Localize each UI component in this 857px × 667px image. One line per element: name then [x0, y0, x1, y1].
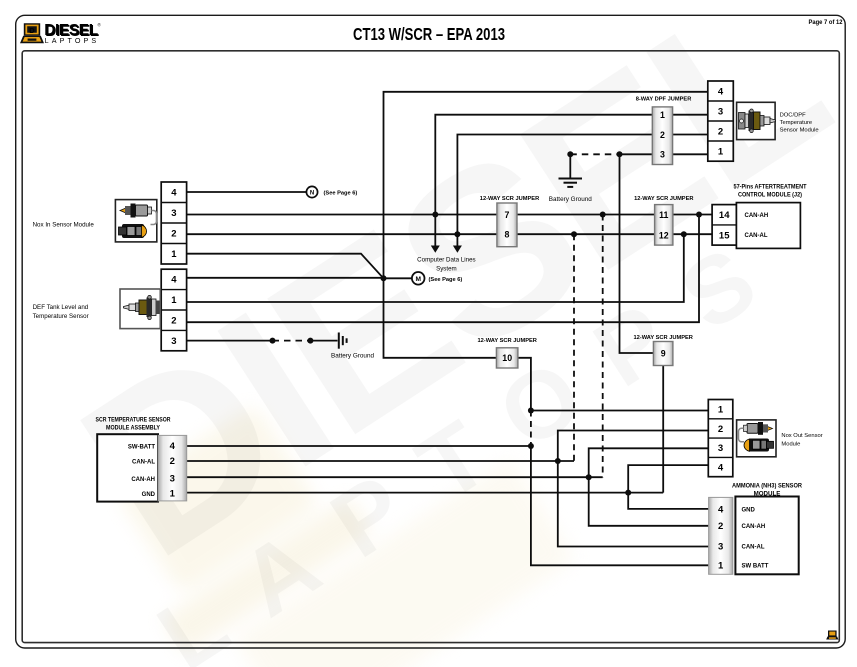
svg-text:1: 1: [170, 489, 176, 500]
svg-text:Battery Ground: Battery Ground: [549, 196, 593, 203]
junction at x435 CAN-high: [432, 212, 438, 218]
svg-text:D: D: [29, 26, 35, 35]
label 12-way SCR jumper (9): [633, 335, 692, 341]
wire GND bus: SCR GND to corner x663: [187, 492, 664, 494]
jumper 12-way SCR (7,8): [497, 203, 517, 247]
svg-text:3: 3: [170, 474, 175, 485]
label computer data lines: [417, 257, 475, 273]
svg-text:14: 14: [719, 210, 730, 221]
svg-text:3: 3: [718, 443, 723, 454]
svg-text:System: System: [436, 266, 457, 273]
svg-text:4: 4: [171, 275, 177, 286]
ACM connector (14,15): [712, 205, 736, 246]
bottom-right small logo: [826, 631, 838, 640]
jumper 12-way SCR (10): [496, 348, 518, 368]
jumper 12-way SCR (9): [653, 342, 673, 366]
wire jumper8 to jumper12: [517, 233, 655, 235]
header DIESEL wordmark: [44, 22, 101, 45]
junction ACM pin15 branch: [681, 231, 687, 237]
junction ACM pin14 branch: [696, 212, 702, 218]
jumper 8-way DPF (1,2,3): [652, 107, 672, 165]
svg-text:Nox Out Sensor: Nox Out Sensor: [781, 433, 822, 439]
wire DEF pin3 to battery ground 1: [187, 340, 273, 342]
svg-text:12: 12: [659, 230, 669, 240]
label battery ground 2: [549, 196, 593, 203]
svg-text:1: 1: [718, 561, 724, 572]
wire branch x435 to 8-way jumper pin1: [435, 115, 652, 246]
wire to ground symbol 1: [310, 340, 337, 342]
junction battery ground 1 left dot: [270, 338, 276, 344]
wire CAN-AH branch x588 to Nox Out pin3: [589, 448, 709, 477]
junction node M: [381, 275, 387, 281]
junction SW-BATT top: [528, 408, 534, 414]
svg-text:AMMONIA (NH3) SENSOR: AMMONIA (NH3) SENSOR: [732, 482, 802, 489]
wire branch x457 to 8-way jumper pin2: [457, 135, 652, 246]
svg-text:57-Pins AFTERTREATMENT: 57-Pins AFTERTREATMENT: [734, 183, 807, 190]
connector Nox Out (1,2,3,4): [708, 400, 733, 477]
svg-text:Battery Ground: Battery Ground: [331, 352, 375, 359]
svg-text:4: 4: [718, 86, 724, 97]
svg-text:CT13 W/SCR – EPA 2013: CT13 W/SCR – EPA 2013: [353, 24, 505, 44]
wire Nox In pin4 to node N: [187, 191, 307, 193]
svg-text:Temperature: Temperature: [780, 120, 813, 126]
Nox Out sensor icon: [737, 420, 776, 457]
svg-text:2: 2: [171, 316, 176, 327]
svg-text:2: 2: [660, 130, 665, 140]
svg-text:Computer Data Lines: Computer Data Lines: [417, 257, 475, 264]
wire dashed battery ground to node x619: [570, 153, 619, 155]
DEF sensor icon: [120, 289, 160, 329]
svg-text:8-WAY DPF JUMPER: 8-WAY DPF JUMPER: [636, 96, 692, 102]
junction dashed pair x574 on CAN-low: [571, 231, 577, 237]
svg-text:12-WAY SCR JUMPER: 12-WAY SCR JUMPER: [480, 196, 539, 202]
svg-text:4: 4: [718, 462, 724, 473]
svg-text:MODULE ASSEMBLY: MODULE ASSEMBLY: [106, 425, 161, 432]
wire CAN-low bus: Nox In pin2 to jumper8: [187, 233, 497, 235]
wire CAN-AH branch x588 to ammonia pin2: [589, 477, 709, 526]
svg-text:N: N: [310, 190, 314, 196]
svg-text:11: 11: [659, 210, 668, 220]
connector DOC/DPF (4,3,2,1): [708, 81, 734, 161]
label 57-pins ACM title: [734, 183, 807, 198]
ACM module box (J2): [736, 203, 800, 249]
svg-text:CAN-AH: CAN-AH: [745, 213, 769, 219]
wire SW-BATT: SCR pin4 line: [187, 445, 531, 447]
wire 8-way jumper pin2 to DOC pin2: [673, 134, 708, 136]
svg-text:15: 15: [719, 230, 730, 241]
label 12-way SCR jumper (7,8): [480, 196, 539, 202]
junction dashed pair x602 on CAN-high: [600, 212, 606, 218]
node N circle: [306, 186, 317, 197]
wire jumper7 to jumper11: [517, 214, 655, 216]
wire SW-BATT x530 to Nox Out pin1: [531, 410, 708, 412]
junction CAN-AH x588: [586, 474, 592, 480]
SCR temperature sensor module box: [97, 434, 158, 501]
junction battery ground dashed right: [617, 151, 623, 157]
svg-text:3: 3: [718, 542, 723, 553]
wire CAN-AH bus: SCR CAN-AH line: [187, 476, 603, 478]
header logo laptop icon: [20, 23, 44, 43]
svg-text:MODULE: MODULE: [754, 490, 781, 497]
label battery ground 1: [331, 352, 375, 359]
watermark laptops text: [140, 206, 807, 667]
wire CAN-AL branch x557 to ammonia pin3: [558, 461, 709, 547]
wire DEF pin2 to ACM pin14 junction: [187, 215, 699, 323]
wire node x619 to 8-way jumper pin3: [620, 153, 653, 155]
svg-text:9: 9: [661, 349, 666, 359]
svg-text:LAPTOPS: LAPTOPS: [45, 36, 100, 45]
svg-text:(See Page 6): (See Page 6): [429, 277, 463, 283]
junction GND x628: [625, 490, 631, 496]
junction SW-BATT bottom: [528, 443, 534, 449]
svg-text:2: 2: [718, 424, 723, 435]
junction battery ground 1 right dot: [307, 338, 313, 344]
wire GND branch x628 to ammonia pin4: [628, 493, 708, 509]
svg-text:(See Page 6): (See Page 6): [324, 190, 358, 196]
svg-text:DOC/DPF: DOC/DPF: [780, 112, 807, 118]
svg-text:SW BATT: SW BATT: [742, 564, 769, 570]
wire battery ground 2 drop: [569, 154, 571, 177]
svg-text:1: 1: [171, 249, 177, 260]
junction CAN-AL x557: [555, 458, 561, 464]
svg-text:4: 4: [170, 441, 176, 452]
wire jumper12 to ACM pin15: [673, 233, 712, 235]
svg-text:M: M: [415, 276, 421, 283]
svg-text:3: 3: [171, 208, 176, 219]
label Nox Out sensor module: [781, 433, 822, 448]
svg-text:1: 1: [171, 295, 177, 306]
svg-text:DEF Tank Level and: DEF Tank Level and: [33, 304, 89, 311]
label 12-way SCR jumper (10): [477, 338, 536, 344]
svg-text:Temperature Sensor: Temperature Sensor: [33, 313, 89, 320]
svg-text:Nox In Sensor Module: Nox In Sensor Module: [33, 221, 95, 228]
wire SW-BATT x530 to ammonia pin1: [531, 446, 709, 565]
wire 8-way jumper pin1 to DOC pin3: [673, 114, 708, 116]
ammonia connector strip (4,2,3,1): [709, 497, 733, 574]
node M see page note: [429, 277, 463, 283]
wire M node to jumper10 input: [384, 278, 497, 358]
svg-text:12-WAY SCR JUMPER: 12-WAY SCR JUMPER: [477, 338, 536, 344]
arrow computer data line 1: [431, 246, 440, 253]
svg-text:CAN-AH: CAN-AH: [742, 524, 766, 530]
arrow computer data line 2: [453, 246, 462, 253]
svg-text:2: 2: [718, 126, 723, 137]
svg-text:Module: Module: [781, 442, 800, 448]
wire GND branch x628 to Nox Out pin4: [628, 465, 708, 493]
wire DOC pin4 net: vertical x384 and top horizontal to DOC pin 4: [384, 92, 708, 278]
svg-text:12-WAY SCR JUMPER: 12-WAY SCR JUMPER: [634, 196, 693, 202]
wire M node to M circle: [384, 277, 412, 279]
svg-text:GND: GND: [742, 507, 756, 513]
svg-text:1: 1: [718, 405, 724, 416]
label 12-way SCR jumper (11,12): [634, 196, 693, 202]
label 8-way DPF jumper: [636, 96, 692, 102]
svg-text:2: 2: [170, 456, 175, 467]
wire jumper11 to ACM pin14: [673, 214, 712, 216]
wire dashed CAN-AL pair x574: [573, 234, 575, 461]
svg-text:CAN-AL: CAN-AL: [745, 233, 768, 239]
wire x619 down to jumper9: [620, 154, 654, 353]
svg-text:10: 10: [502, 353, 512, 363]
junction battery ground dashed left: [567, 151, 573, 157]
label DEF Tank: [33, 304, 89, 320]
svg-text:8: 8: [505, 230, 510, 240]
wire CAN-AL branch x557 to Nox Out pin2: [558, 431, 709, 462]
DOC sensor icon: [737, 102, 776, 139]
connector Nox In (4,3,2,1): [161, 182, 186, 264]
watermark yellow laptop: [91, 303, 576, 667]
svg-text:1: 1: [660, 110, 665, 120]
wire SW-BATT x530 dashed segment: [530, 411, 532, 447]
wire CAN-high bus: Nox In pin3 to jumper7: [187, 214, 497, 216]
svg-text:CAN-AL: CAN-AL: [132, 460, 155, 466]
svg-text:3: 3: [171, 336, 176, 347]
svg-text:12-WAY SCR JUMPER: 12-WAY SCR JUMPER: [633, 335, 692, 341]
wire dashed CAN-AH pair x602: [602, 215, 604, 478]
svg-text:7: 7: [505, 210, 510, 220]
ammonia module box: [735, 497, 798, 575]
SCR connector strip (4,2,3,1): [158, 435, 187, 501]
svg-text:1: 1: [718, 146, 724, 157]
svg-text:CONTROL MODULE (J2): CONTROL MODULE (J2): [738, 191, 802, 198]
wire CAN-AL bus: SCR CAN-AL line: [187, 460, 574, 462]
label DOC/DPF temperature sensor module: [780, 112, 819, 133]
junction at x457 CAN-low: [454, 231, 460, 237]
svg-text:3: 3: [718, 106, 723, 117]
svg-text:CAN-AH: CAN-AH: [131, 477, 155, 483]
wire Nox In pin1 with diagonal to M node: [187, 254, 384, 279]
svg-text:3: 3: [660, 150, 665, 160]
svg-text:SCR TEMPERATURE SENSOR: SCR TEMPERATURE SENSOR: [96, 417, 171, 424]
svg-text:GND: GND: [142, 492, 156, 498]
label SCR assembly title: [96, 417, 171, 432]
svg-text:Sensor Module: Sensor Module: [780, 128, 819, 134]
svg-text:4: 4: [171, 188, 177, 199]
wire 8-way jumper pin3 to DOC pin1: [673, 153, 708, 155]
svg-text:Page 7 of 12: Page 7 of 12: [809, 19, 843, 26]
jumper 12-way SCR (11,12): [655, 205, 673, 246]
wire dashed segment battery ground 1: [273, 340, 311, 342]
node M circle: [412, 272, 425, 285]
wire DEF pin4 to M node: [187, 277, 384, 279]
ground symbol 2 (battery ground top): [559, 179, 583, 187]
svg-text:2: 2: [171, 229, 176, 240]
Nox In sensor icon: [115, 200, 156, 242]
svg-text:2: 2: [718, 521, 723, 532]
wire jumper10 output to x530: [518, 358, 531, 411]
label ammonia title: [732, 482, 802, 497]
svg-text:SW-BATT: SW-BATT: [128, 445, 155, 451]
connector DEF tank (4,1,2,3): [161, 269, 186, 351]
wire DEF pin1 to ACM pin15 junction: [187, 234, 684, 302]
svg-text:CAN-AL: CAN-AL: [742, 545, 765, 551]
ground symbol 1 (battery ground DEF pin3): [339, 333, 347, 349]
svg-text:4: 4: [718, 504, 724, 515]
node N see page note: [324, 190, 358, 196]
label Nox In Sensor Module: [33, 221, 95, 228]
wire jumper9 down to GND bus: [662, 366, 664, 493]
